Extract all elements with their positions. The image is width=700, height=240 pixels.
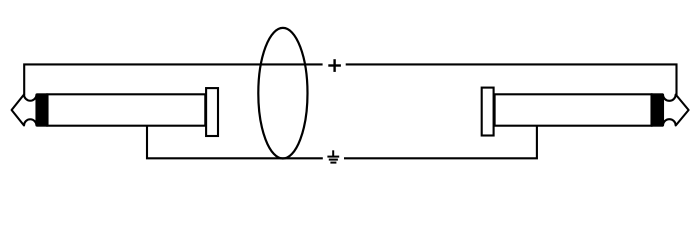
wire: bottom shield conductor, right segment from ground symbol to right plug sleeve xyxy=(344,126,537,159)
J1 sleeve barrel xyxy=(48,94,206,125)
J2 insulator ring (black band) xyxy=(651,93,663,126)
wire: bottom shield conductor, left segment from left plug sleeve down and right to ground symbol xyxy=(147,126,323,159)
J2 tip xyxy=(663,95,689,126)
J1 tip xyxy=(12,95,37,126)
jack plug J1 (left 1/4" TS plug) xyxy=(12,88,218,136)
J1 collar xyxy=(206,88,218,136)
ground symbol (shield/earth) xyxy=(327,150,339,162)
J1 insulator ring (black band) xyxy=(37,93,48,126)
J2 sleeve barrel xyxy=(495,94,652,125)
J2 collar xyxy=(482,88,494,136)
wire: top (+) conductor, right segment from plus sign to right plug tip xyxy=(346,64,677,95)
jack plug J2 (right 1/4" TS plug) xyxy=(482,88,689,136)
plus sign (+) hot conductor label xyxy=(328,59,341,72)
wire: top (+) conductor, left segment from left plug tip up and right to plus sign xyxy=(24,64,322,95)
cable loop (coiled cable) ellipse xyxy=(258,28,307,159)
